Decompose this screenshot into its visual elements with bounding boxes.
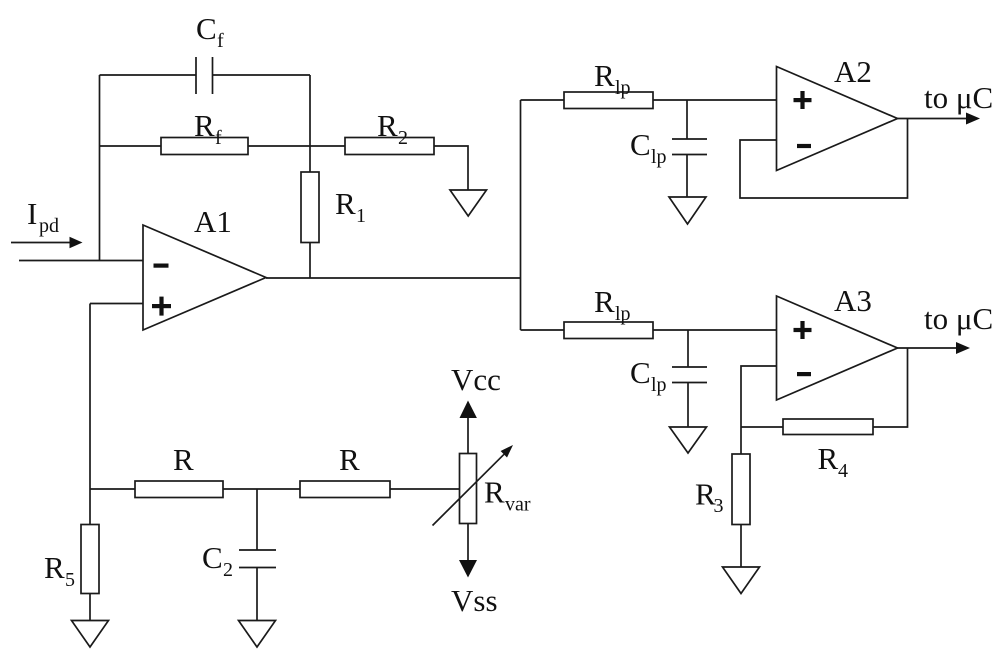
wire junction to R4 (741, 426, 783, 428)
svg-text:R: R (594, 284, 615, 319)
svg-text:lp: lp (651, 146, 667, 168)
svg-text:A2: A2 (834, 54, 872, 89)
svg-text:C: C (196, 11, 217, 46)
Ipd current arrow (11, 237, 83, 248)
wire vertical bus to filters (520, 100, 522, 330)
svg-text:R: R (594, 58, 615, 93)
label R1 (335, 186, 366, 227)
wire Rlp to A3 plus (653, 329, 777, 331)
wire R5 top (89, 489, 91, 525)
svg-text:f: f (215, 127, 222, 149)
svg-text:f: f (217, 30, 224, 52)
wire Clp (top) upper (686, 100, 688, 139)
svg-text:Vss: Vss (451, 583, 498, 618)
wire input horizontal (19, 260, 143, 262)
svg-text:2: 2 (223, 559, 233, 581)
svg-text:C: C (630, 127, 651, 162)
op-amp A2 (777, 67, 898, 171)
svg-text:R: R (377, 108, 398, 143)
op-amp A3 (777, 296, 898, 400)
wire R3 bottom (740, 525, 742, 568)
capacitor C2 (239, 550, 276, 568)
wire vertical Cf/Rf to R1 (309, 75, 311, 172)
wire plus-node vertical down (89, 304, 91, 490)
A2 plus sign (794, 91, 812, 109)
svg-text:var: var (505, 494, 531, 516)
ground below R5 (72, 621, 109, 648)
ground below C2 (239, 621, 276, 648)
wire A1 plus input (90, 303, 143, 305)
label Rf (194, 108, 222, 149)
wire R5 bottom (89, 594, 91, 621)
resistor R3 (732, 454, 750, 525)
svg-text:lp: lp (651, 374, 667, 396)
arrow to uC (bottom) (956, 342, 970, 354)
svg-text:C: C (630, 355, 651, 390)
wire A2 output (898, 118, 968, 120)
label Rlp (bottom) (594, 284, 631, 325)
wire Cf top left segment (100, 74, 197, 76)
A2 minus sign (797, 144, 811, 148)
capacitor Clp (top) (672, 139, 707, 155)
label Rlp (top) (594, 58, 631, 99)
svg-text:A3: A3 (834, 283, 872, 318)
wire R2 to ground (434, 146, 468, 190)
svg-text:Vcc: Vcc (451, 362, 501, 397)
ground below Clp (bottom) (670, 427, 707, 453)
resistor R2 (345, 138, 434, 155)
resistor Rf (161, 138, 248, 155)
wire Clp (top) lower (686, 155, 688, 198)
wire A3 minus input (741, 366, 777, 427)
svg-text:1: 1 (356, 205, 366, 227)
svg-text:2: 2 (398, 127, 408, 149)
A3 minus sign (797, 372, 811, 376)
resistor Rvar (460, 454, 477, 524)
A1 minus sign (154, 264, 169, 268)
svg-text:to μC: to μC (924, 80, 993, 115)
svg-text:C: C (202, 540, 223, 575)
svg-text:4: 4 (838, 460, 848, 482)
Rvar diagonal arrow (433, 445, 514, 526)
svg-text:3: 3 (714, 495, 724, 517)
label R2 (377, 108, 408, 149)
wire between R resistors (223, 488, 300, 490)
label R5 (44, 550, 75, 591)
wire to Rlp (bottom) (521, 329, 565, 331)
wire Clp (bottom) lower (687, 383, 689, 428)
label Clp (bottom) (630, 355, 667, 396)
A3 plus sign (794, 321, 812, 339)
label Rvar (484, 475, 531, 516)
wire Cf top right segment (213, 74, 311, 76)
svg-text:lp: lp (615, 303, 631, 325)
svg-text:R: R (44, 550, 65, 585)
ground below R3 (723, 567, 760, 594)
resistor Rlp (top) (564, 92, 653, 109)
svg-text:A1: A1 (194, 204, 232, 239)
wire Rlp to A2 plus (653, 99, 777, 101)
wire C2 bottom (256, 568, 258, 621)
wire R4 to output (873, 348, 908, 427)
wire A1 output (266, 277, 521, 279)
wire bias node to R (90, 488, 135, 490)
svg-text:R: R (335, 186, 356, 221)
svg-text:pd: pd (39, 215, 59, 237)
resistor R (left) (135, 481, 223, 498)
resistor R1 (301, 172, 319, 243)
wire A2 feedback (740, 119, 908, 199)
arrow to uC (top) (966, 113, 980, 125)
svg-text:R: R (818, 441, 839, 476)
svg-text:R: R (194, 108, 215, 143)
svg-text:R: R (173, 442, 194, 477)
capacitor Cf (196, 57, 213, 94)
svg-text:I: I (27, 196, 37, 231)
wire R1 bottom to output (309, 243, 311, 279)
resistor R4 (783, 419, 873, 435)
svg-text:R: R (484, 475, 505, 510)
label C2 (202, 540, 233, 581)
ground after R2 (450, 190, 487, 216)
wire Clp (bottom) upper (687, 330, 689, 367)
wire C2 top (256, 489, 258, 550)
label R3 (695, 477, 724, 518)
ground below Clp (top) (669, 197, 706, 224)
node Ipd input label (27, 196, 59, 237)
Vcc arrow (460, 401, 477, 454)
wire Rf to R2 (248, 145, 345, 147)
svg-text:R: R (339, 442, 360, 477)
svg-text:to μC: to μC (924, 301, 993, 336)
capacitor Clp (bottom) (672, 367, 707, 383)
svg-text:lp: lp (615, 77, 631, 99)
resistor R (right) (300, 481, 390, 498)
wire R to Rvar (390, 488, 460, 490)
wire A3 output (898, 347, 958, 349)
label R4 (818, 441, 849, 482)
A1 plus sign (152, 297, 171, 316)
label Cf (196, 11, 224, 52)
resistor R5 (81, 525, 99, 594)
wire Rf left (100, 145, 162, 147)
op-amp A1 (143, 225, 266, 330)
wire feedback left vertical (99, 75, 101, 261)
svg-text:5: 5 (65, 569, 75, 591)
resistor Rlp (bottom) (564, 322, 653, 339)
Vss arrow (459, 524, 477, 578)
wire R3 top (740, 427, 742, 454)
label Clp (top) (630, 127, 667, 168)
wire to Rlp (top) (521, 99, 565, 101)
